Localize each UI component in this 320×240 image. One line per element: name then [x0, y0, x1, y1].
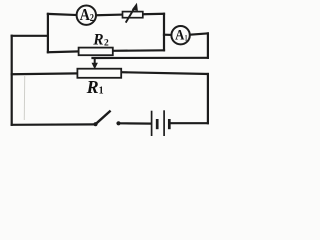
svg-text:1: 1 — [99, 86, 104, 97]
svg-text:R: R — [86, 77, 99, 97]
svg-text:2: 2 — [104, 38, 109, 48]
svg-text:A: A — [175, 27, 184, 43]
svg-text:R: R — [92, 32, 103, 49]
svg-text:1: 1 — [185, 32, 188, 42]
svg-text:2: 2 — [90, 13, 94, 24]
